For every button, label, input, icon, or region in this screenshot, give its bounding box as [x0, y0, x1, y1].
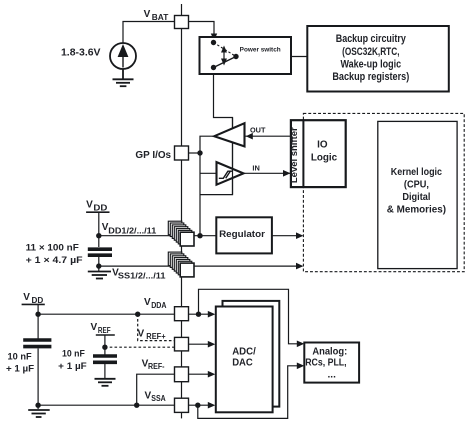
svg-text:RCs, PLL,: RCs, PLL, [305, 358, 347, 369]
level shifter divider [302, 120, 304, 187]
ground bottom left [28, 410, 50, 417]
wire to IN buffer input [200, 172, 217, 174]
wire cap bank bottom to ground [98, 257, 100, 271]
svg-text:Wake-up logic: Wake-up logic [341, 59, 402, 71]
level shifter / IO logic box [291, 120, 346, 187]
schmitt hysteresis symbol [219, 171, 233, 178]
VDD label underline [86, 211, 109, 213]
svg-text:Backup registers): Backup registers) [332, 71, 409, 83]
svg-text:...: ... [328, 370, 337, 381]
svg-text:V: V [91, 322, 98, 333]
wire power rail through buffers [232, 118, 234, 195]
switch dashed throw [214, 43, 237, 57]
svg-text:V: V [23, 292, 30, 303]
arrow VREF- into ADC [208, 371, 216, 378]
wire main pin bus VDDA to VREF+ [181, 321, 183, 338]
wire junction down to regulator node [199, 153, 201, 236]
wire junction up to OUT buffer apex [200, 136, 214, 153]
wire VDDA loop to analog block top [199, 289, 298, 344]
label kernel logic [387, 167, 446, 216]
wire VDDA rail horizontal [38, 313, 174, 315]
arrow into level shifter [283, 170, 291, 177]
wire VBAT pin to power switch [189, 22, 214, 43]
svg-text:IN: IN [252, 164, 259, 173]
pin stack VSS1..11 [168, 252, 194, 277]
wire main pin bus VREF+ to VREF- [181, 351, 183, 367]
arrow into analog bottom [297, 363, 305, 370]
svg-text:(OSC32K,RTC,: (OSC32K,RTC, [342, 46, 399, 58]
wire stub above VBAT pin [181, 4, 183, 16]
svg-text:SSA: SSA [151, 393, 165, 403]
VREF underline [96, 334, 115, 336]
wire VSSA pin to ADC [189, 404, 210, 406]
wire VDD cap to bottom rail [37, 349, 39, 410]
wire stub below VSSA pin [181, 412, 183, 418]
arrow VDDA into ADC [208, 311, 216, 318]
wire VBAT supply from source to pin [123, 22, 174, 44]
svg-text:REF-: REF- [148, 361, 165, 371]
wire main pin bus VREF- to VSSA [181, 382, 183, 399]
kernel logic dashed boundary [303, 113, 464, 271]
wire VREF cap to ground [104, 364, 106, 378]
svg-text:+ 1 × 4.7 µF: + 1 × 4.7 µF [26, 255, 83, 265]
node VSS cap bottom [96, 263, 101, 268]
node VREF- to VSSA rail [134, 403, 139, 408]
pin stack VDD1..11 [168, 221, 194, 246]
wire IN buffer to level shifter [244, 172, 291, 174]
arrow into OUT buffer [246, 133, 253, 140]
svg-text:ADC/: ADC/ [232, 346, 256, 357]
wire VDD bottom rail to VDDA [37, 305, 39, 339]
svg-text:10 nF: 10 nF [8, 351, 32, 361]
svg-text:10 nF: 10 nF [62, 349, 85, 359]
label backup circuitry [332, 33, 409, 83]
svg-text:GP I/Os: GP I/Os [135, 150, 171, 161]
regulator box [216, 217, 272, 253]
wire VDDA pin to ADC [189, 313, 210, 315]
ground below current source [113, 69, 134, 86]
pin VREF- [175, 367, 189, 382]
wire VDD1 stack to regulator [194, 235, 216, 237]
wire VREF- pin to ADC [189, 373, 210, 375]
svg-text:Power switch: Power switch [240, 46, 281, 53]
svg-text:DD: DD [32, 295, 44, 305]
arrow into analog top [297, 341, 305, 348]
node VDDA loop [196, 312, 201, 317]
node regulator input [197, 233, 202, 238]
wire VDD node to VDD1 pins stack [99, 235, 180, 237]
wire power switch to backup circuitry [236, 56, 307, 58]
arrow VREF+ into ADC [208, 341, 216, 348]
svg-text:V: V [144, 297, 151, 308]
pin VSSA [175, 398, 189, 412]
svg-text:Digital: Digital [402, 192, 430, 203]
svg-text:& Memories): & Memories) [387, 205, 446, 216]
ADC/DAC front box [216, 307, 273, 413]
wire main pin bus GPIO to VDDA [181, 160, 183, 307]
svg-text:Kernel logic: Kernel logic [391, 167, 442, 178]
pin GP I/Os [175, 146, 189, 160]
switch node top [211, 40, 216, 45]
svg-text:BAT: BAT [152, 12, 169, 22]
svg-text:(CPU,: (CPU, [404, 180, 429, 191]
capacitor 10nF+1uF (VDD) [23, 340, 51, 347]
schmitt IN buffer [217, 162, 244, 185]
svg-text:REF: REF [98, 325, 111, 335]
pin VREF+ [175, 337, 189, 351]
arrow VSS into kernel [296, 263, 303, 270]
svg-text:Regulator: Regulator [219, 229, 265, 240]
svg-text:SS1/2/.../11: SS1/2/.../11 [118, 270, 166, 280]
svg-text:Logic: Logic [311, 153, 338, 164]
svg-text:V: V [86, 200, 93, 211]
svg-text:IO: IO [317, 139, 328, 150]
svg-text:OUT: OUT [250, 126, 266, 135]
VDD bottom underline [22, 303, 45, 305]
wire GPIO pin to junction [189, 152, 200, 154]
wire VREF node vertical [104, 335, 106, 355]
ground below VREF cap [95, 379, 116, 386]
arrow into power switch [211, 34, 217, 42]
svg-text:Analog:: Analog: [312, 347, 347, 358]
svg-text:V: V [144, 9, 151, 20]
wire VSSA loop to analog block bottom [198, 366, 298, 419]
current source V1 1.8-3.6V [110, 43, 136, 69]
capacitor bank 11x100nF [88, 249, 112, 255]
dashed wire VREF node to VREF+ [105, 346, 175, 348]
ADC/DAC back box [223, 301, 280, 407]
pin VDDA [175, 307, 189, 321]
wire main pin bus VBAT to GPIO [181, 29, 183, 147]
svg-text:11 × 100 nF: 11 × 100 nF [26, 242, 80, 252]
node VREF [102, 345, 107, 350]
node GPIO junction [197, 150, 202, 155]
wire VSS1 stack to kernel logic [194, 265, 302, 267]
power switch box [200, 37, 292, 74]
wire VREF- pin to VSSA rail [137, 374, 175, 405]
capacitor 10nF+1uF (VREF) [93, 356, 117, 362]
backup circuitry box [307, 26, 449, 92]
svg-text:DAC: DAC [232, 357, 253, 368]
dashed wire VDDA to VREF+ [138, 314, 175, 340]
node VDD rail [35, 312, 40, 317]
svg-text:DD1/2/.../11: DD1/2/.../11 [108, 225, 156, 235]
node VDDA-VREF+ tie [135, 312, 140, 317]
wire regulator output to kernel logic [272, 235, 302, 237]
kernel logic box [378, 121, 457, 268]
wire power switch bottom down to regulator node [200, 68, 233, 195]
switch solid throw [214, 57, 237, 68]
node VDD cap top [96, 233, 101, 238]
node VSSA loop [195, 403, 200, 408]
wire level shifter to OUT buffer [246, 135, 292, 137]
wire VREF+ pin to ADC [189, 343, 210, 345]
svg-text:+ 1 µF: + 1 µF [58, 361, 87, 371]
switch toggle arrows [221, 46, 227, 66]
op-amp style OUT buffer [214, 123, 244, 146]
analog block box [304, 343, 359, 383]
svg-text:V: V [138, 329, 145, 340]
ground below cap bank [88, 272, 111, 279]
switch node bottom [211, 65, 216, 70]
svg-text:1.8-3.6V: 1.8-3.6V [61, 47, 101, 58]
svg-text:REF+: REF+ [146, 331, 165, 341]
svg-text:Level shifter: Level shifter [289, 127, 299, 183]
svg-text:DD: DD [93, 203, 107, 213]
arrow regulator into kernel [296, 232, 303, 239]
svg-text:+ 1 µF: + 1 µF [6, 364, 34, 374]
pin VBAT [175, 16, 189, 29]
wire VDD to cap bank top node [98, 213, 100, 248]
wire VSS node to VSS1 pins stack [99, 265, 180, 267]
arrow VSSA into ADC [208, 402, 216, 409]
node VSSA rail left [35, 403, 40, 408]
switch node common [233, 54, 238, 59]
svg-text:DDA: DDA [151, 300, 166, 310]
svg-text:Backup circuitry: Backup circuitry [336, 33, 406, 45]
wire bottom VSSA rail [38, 404, 174, 406]
